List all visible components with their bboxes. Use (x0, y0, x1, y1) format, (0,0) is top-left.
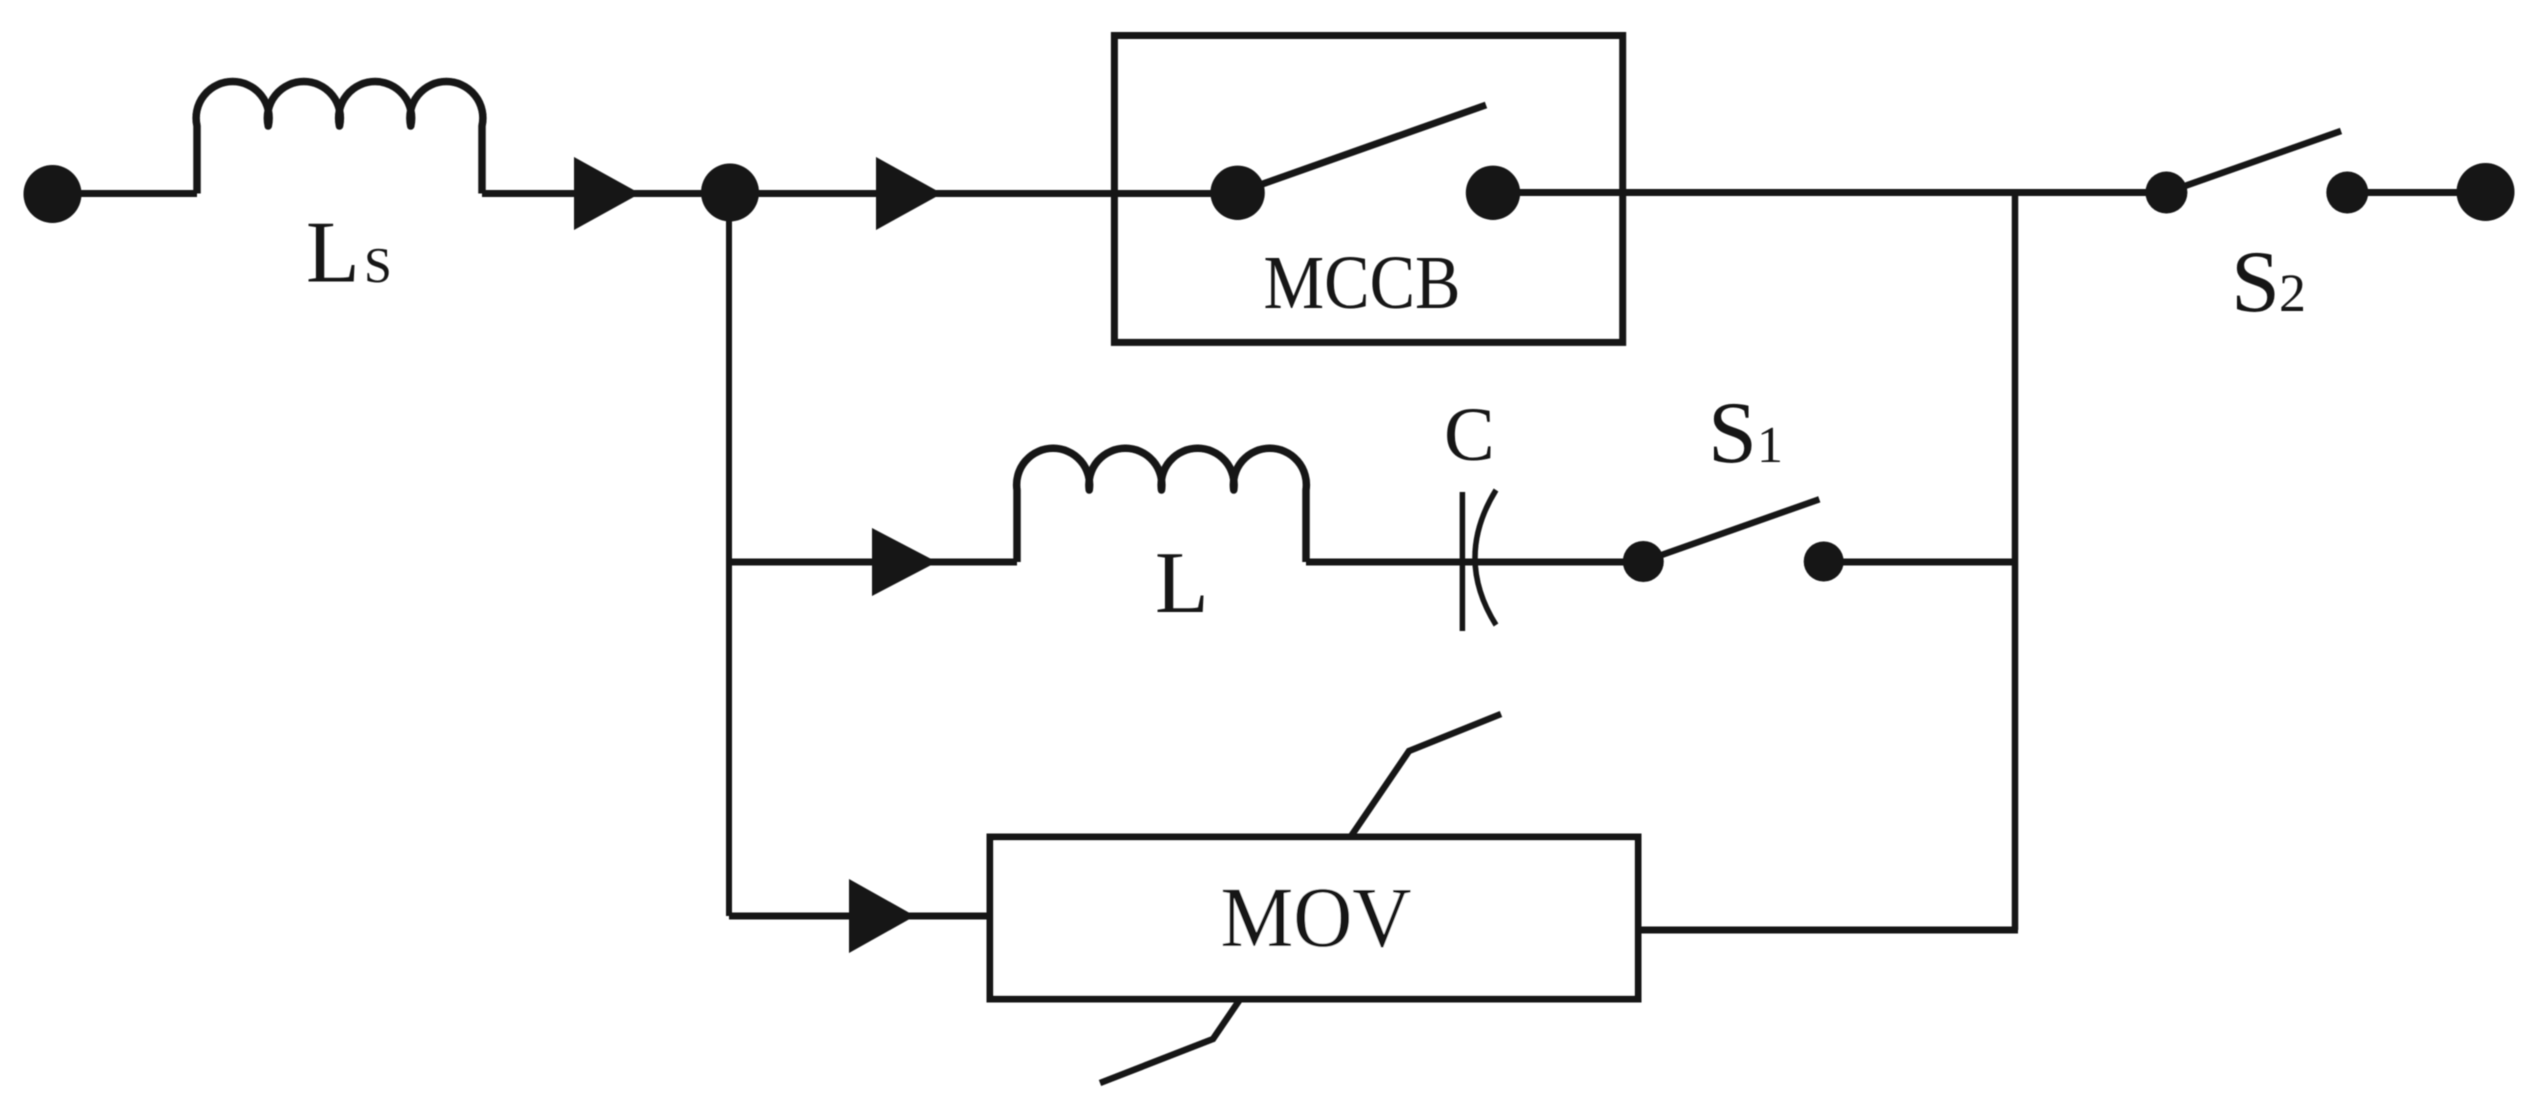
wire right bus (2012, 192, 2019, 930)
switch S2 contact dot left (2145, 172, 2187, 214)
MCCB switch blade (1238, 105, 1486, 193)
inductor L (1017, 448, 1307, 562)
svg-text:2: 2 (2279, 263, 2306, 323)
label L (1155, 535, 1209, 632)
node OUT (right terminal) (2457, 163, 2515, 221)
svg-text:MCCB: MCCB (1264, 241, 1461, 325)
MCCB contact dot left (1210, 166, 1264, 220)
wire from S1 to right bus (1824, 559, 2015, 566)
MCCB contact dot right (1466, 166, 1520, 220)
switch S1 blade (1643, 499, 1819, 561)
svg-text:C: C (1444, 393, 1495, 477)
arrow on bottom branch (849, 879, 915, 953)
capacitor C plate right (curved) (1475, 490, 1496, 625)
switch S2 blade (2166, 131, 2341, 193)
switch S2 contact dot right (2326, 172, 2368, 214)
wire from MOV to right bus (1638, 927, 2018, 934)
arrow on main wire (right) (876, 157, 942, 230)
varistor diagonal stroke of MOV (1100, 714, 1501, 1083)
svg-text:L: L (1155, 535, 1209, 632)
switch S1 contact dot left (1623, 541, 1664, 582)
node A (junction of branches) (701, 164, 759, 222)
arrow on main wire (left) (574, 157, 640, 230)
svg-text:S: S (2231, 234, 2280, 331)
svg-text:S: S (1708, 385, 1757, 482)
svg-text:MOV: MOV (1221, 869, 1412, 965)
svg-text:S: S (364, 237, 392, 293)
svg-text:1: 1 (1757, 417, 1783, 474)
inductor Ls (196, 82, 483, 194)
MOV box (990, 837, 1638, 999)
label S2 (2231, 234, 2306, 331)
switch S1 contact dot right (1804, 542, 1844, 582)
arrow on middle branch (872, 528, 937, 596)
label C (1444, 393, 1495, 477)
capacitor C plate left (1460, 492, 1466, 631)
wire from S2 to OUT terminal (2347, 189, 2486, 196)
node IN (left terminal) (24, 165, 82, 223)
wire middle branch from bus to inductor L (729, 559, 1017, 566)
wire from IN to inductor Ls (52, 190, 197, 197)
label S1 (1708, 385, 1783, 482)
label Ls (306, 205, 392, 302)
label MCCB (1264, 241, 1461, 325)
wire from L through capacitor to S1 (1306, 559, 1643, 566)
wire left bus (node A down) (726, 193, 732, 916)
wire from MCCB to switch S2 (1493, 189, 2166, 196)
wire bottom branch from bus to MOV (729, 913, 990, 920)
wire from Ls to MCCB (482, 190, 1241, 197)
MCCB box (1114, 36, 1622, 343)
label MOV (1221, 869, 1412, 965)
svg-text:L: L (306, 205, 360, 302)
